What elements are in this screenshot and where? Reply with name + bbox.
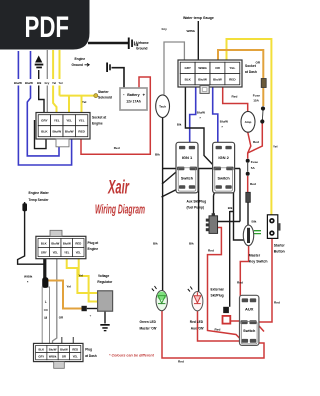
- svg-text:Engine Water: Engine Water: [29, 191, 50, 195]
- svg-text:RED: RED: [75, 241, 81, 245]
- svg-text:YEL: YEL: [53, 251, 59, 255]
- svg-text:W/Blk: W/Blk: [49, 355, 57, 359]
- svg-text:OR: OR: [256, 61, 261, 65]
- svg-text:Battery: Battery: [127, 93, 139, 97]
- svg-text:* Colours can be different: * Colours can be different: [109, 354, 155, 358]
- svg-text:Red: Red: [253, 140, 259, 144]
- svg-text:Socket: Socket: [245, 64, 257, 68]
- svg-text:Blu/W: Blu/W: [65, 129, 74, 133]
- svg-text:GRY: GRY: [41, 251, 47, 255]
- svg-text:W/Blk: W/Blk: [187, 29, 196, 33]
- svg-text:Blk: Blk: [189, 241, 194, 245]
- svg-text:BLK: BLK: [41, 129, 48, 133]
- svg-text:OO: OO: [44, 308, 48, 312]
- svg-text:Xair: Xair: [107, 177, 129, 199]
- svg-text:Blu/W: Blu/W: [197, 111, 205, 115]
- svg-text:Starter: Starter: [98, 90, 109, 94]
- svg-text:OR: OR: [59, 316, 64, 320]
- svg-text:Ground: Ground: [72, 63, 84, 67]
- svg-text:Yel: Yel: [273, 145, 278, 149]
- svg-text:Wiring Diagram: Wiring Diagram: [95, 203, 145, 217]
- svg-text:BLK: BLK: [41, 241, 47, 245]
- svg-text:BLK: BLK: [185, 77, 192, 81]
- svg-text:Gry: Gry: [162, 27, 168, 31]
- svg-text:Skt/Plug: Skt/Plug: [211, 294, 224, 298]
- svg-text:Red: Red: [237, 281, 243, 285]
- svg-text:GRY: GRY: [184, 66, 191, 70]
- svg-text:Airframe: Airframe: [136, 41, 149, 45]
- svg-text:Temp Sender: Temp Sender: [29, 198, 50, 202]
- svg-text:Tach: Tach: [159, 105, 166, 109]
- svg-text:IGN 1: IGN 1: [182, 155, 193, 160]
- svg-text:YEL: YEL: [73, 355, 79, 359]
- svg-text:at Dash: at Dash: [85, 354, 97, 358]
- svg-text:Button: Button: [274, 249, 285, 253]
- svg-text:5A: 5A: [251, 166, 256, 170]
- svg-text:*: *: [222, 126, 224, 130]
- svg-text:W/Blk: W/Blk: [198, 66, 207, 70]
- svg-text:Red: Red: [114, 146, 120, 150]
- svg-text:Red: Red: [208, 248, 214, 252]
- svg-text:Solenoid: Solenoid: [98, 96, 112, 100]
- svg-text:Switch: Switch: [181, 177, 194, 181]
- svg-text:Socket at: Socket at: [92, 116, 107, 120]
- svg-text:Red: Red: [232, 95, 238, 99]
- svg-text:Key Switch: Key Switch: [249, 260, 268, 264]
- svg-text:Yel: Yel: [82, 100, 87, 104]
- svg-text:Blk: Blk: [37, 81, 42, 85]
- svg-text:RED: RED: [78, 129, 85, 133]
- svg-text:Red LED: Red LED: [190, 320, 204, 324]
- svg-text:Blk: Blk: [155, 152, 160, 156]
- svg-text:Blk: Blk: [153, 241, 158, 245]
- svg-text:External: External: [211, 287, 224, 291]
- svg-text:Yel: Yel: [59, 81, 63, 85]
- svg-text:at Dash: at Dash: [245, 70, 257, 74]
- svg-text:Fuse: Fuse: [251, 160, 259, 164]
- svg-text:Blk: Blk: [228, 206, 233, 210]
- svg-text:Red: Red: [215, 328, 221, 332]
- svg-text:Engine: Engine: [75, 57, 86, 61]
- svg-text:Regulator: Regulator: [97, 280, 113, 284]
- svg-text:BLK: BLK: [39, 347, 45, 351]
- svg-text:+: +: [90, 314, 92, 318]
- svg-text:OR: OR: [215, 66, 220, 70]
- svg-text:Blu/W: Blu/W: [198, 77, 207, 81]
- svg-text:Red: Red: [274, 300, 280, 304]
- svg-text:M: M: [44, 316, 47, 320]
- svg-text:Blu/W: Blu/W: [220, 120, 228, 124]
- svg-text:YEL: YEL: [54, 118, 60, 122]
- svg-text:Blu/W: Blu/W: [51, 241, 59, 245]
- svg-text:Amp: Amp: [245, 120, 252, 124]
- svg-text:YEL: YEL: [79, 118, 85, 122]
- svg-text:Switch: Switch: [243, 329, 256, 333]
- svg-text:*: *: [27, 281, 29, 285]
- svg-text:+: +: [143, 92, 146, 97]
- svg-text:Blk: Blk: [252, 220, 257, 224]
- svg-text:RED: RED: [229, 77, 236, 81]
- svg-text:W/Blk: W/Blk: [24, 275, 33, 279]
- svg-text:Water temp Gauge: Water temp Gauge: [183, 16, 214, 20]
- svg-text:Ground: Ground: [136, 46, 148, 50]
- svg-text:Yel: Yel: [52, 81, 56, 85]
- svg-text:Plug at: Plug at: [88, 241, 100, 245]
- svg-text:YEL: YEL: [76, 251, 82, 255]
- svg-text:Blk: Blk: [177, 122, 182, 126]
- svg-text:Blu/W: Blu/W: [52, 129, 61, 133]
- svg-text:YEL: YEL: [229, 66, 235, 70]
- svg-text:Switch: Switch: [217, 177, 230, 181]
- svg-text:Blu/W: Blu/W: [213, 77, 222, 81]
- svg-text:Aux 'ON': Aux 'ON': [191, 326, 204, 330]
- svg-text:Aux Skt/Plug: Aux Skt/Plug: [187, 200, 207, 204]
- svg-text:Blu/W: Blu/W: [49, 347, 57, 351]
- svg-text:Starter: Starter: [274, 244, 286, 248]
- svg-text:*: *: [200, 117, 202, 121]
- svg-text:Gry: Gry: [45, 81, 50, 85]
- svg-text:RED: RED: [72, 347, 78, 351]
- svg-text:GRY: GRY: [38, 355, 44, 359]
- svg-text:Plug: Plug: [85, 348, 92, 352]
- svg-text:GRY: GRY: [41, 118, 48, 122]
- svg-text:12v 17Ah: 12v 17Ah: [126, 100, 140, 104]
- svg-text:YEL: YEL: [64, 251, 70, 255]
- svg-text:Blu/W: Blu/W: [14, 81, 22, 85]
- svg-text:Fuse: Fuse: [253, 94, 261, 98]
- svg-text:IGN 2: IGN 2: [218, 155, 229, 160]
- svg-text:Blu/W: Blu/W: [60, 347, 68, 351]
- svg-text:Engine: Engine: [92, 121, 103, 125]
- svg-text:15A: 15A: [253, 98, 259, 102]
- svg-text:Red: Red: [250, 182, 256, 186]
- svg-text:YEL: YEL: [66, 118, 72, 122]
- svg-text:PDF: PDF: [25, 11, 70, 44]
- svg-text:Red: Red: [178, 360, 184, 364]
- svg-text:Green LED: Green LED: [140, 320, 157, 324]
- svg-text:Yel: Yel: [79, 274, 84, 278]
- svg-text:AUX: AUX: [245, 306, 254, 311]
- svg-text:Yel: Yel: [67, 285, 72, 289]
- svg-text:Blu/W: Blu/W: [63, 241, 71, 245]
- svg-text:OR: OR: [62, 355, 66, 359]
- svg-text:Master: Master: [249, 253, 261, 257]
- svg-text:L: L: [45, 300, 47, 304]
- svg-text:Engine: Engine: [88, 247, 99, 251]
- svg-text:Blu/W: Blu/W: [25, 81, 33, 85]
- svg-text:Master 'ON': Master 'ON': [140, 326, 158, 330]
- svg-text:Voltage: Voltage: [98, 274, 110, 278]
- svg-text:(fuel Pump): (fuel Pump): [187, 205, 205, 209]
